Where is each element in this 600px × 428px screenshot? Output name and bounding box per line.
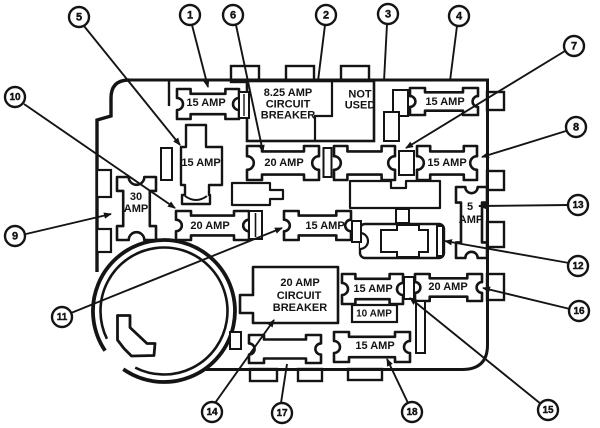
svg-text:15 AMP: 15 AMP — [181, 157, 220, 169]
svg-text:15 AMP: 15 AMP — [186, 97, 225, 109]
svg-text:20 AMP: 20 AMP — [190, 220, 229, 232]
svg-text:2: 2 — [323, 10, 329, 22]
svg-text:20 AMP: 20 AMP — [280, 277, 319, 289]
svg-text:10 AMP: 10 AMP — [356, 309, 392, 320]
svg-text:7: 7 — [571, 41, 577, 53]
svg-text:6: 6 — [230, 10, 236, 22]
svg-text:9: 9 — [12, 231, 18, 243]
svg-text:15 AMP: 15 AMP — [355, 340, 394, 352]
svg-text:15 AMP: 15 AMP — [425, 96, 464, 108]
svg-text:8.25 AMP: 8.25 AMP — [264, 87, 313, 99]
svg-text:1: 1 — [187, 10, 193, 22]
svg-text:20 AMP: 20 AMP — [428, 281, 467, 293]
svg-text:15 AMP: 15 AMP — [353, 283, 392, 295]
svg-text:AMP: AMP — [459, 214, 483, 226]
svg-text:BREAKER: BREAKER — [261, 110, 315, 122]
svg-text:AMP: AMP — [124, 203, 148, 215]
svg-text:8: 8 — [573, 122, 579, 134]
svg-text:4: 4 — [456, 11, 463, 23]
svg-text:15: 15 — [542, 405, 554, 416]
svg-text:30: 30 — [130, 191, 142, 203]
svg-text:CIRCUIT: CIRCUIT — [277, 290, 322, 302]
svg-text:5: 5 — [76, 12, 82, 24]
svg-text:15 AMP: 15 AMP — [305, 220, 344, 232]
svg-text:5: 5 — [467, 201, 473, 213]
svg-text:12: 12 — [572, 261, 584, 272]
svg-text:13: 13 — [572, 200, 584, 211]
svg-text:11: 11 — [57, 312, 68, 323]
svg-text:17: 17 — [276, 408, 288, 419]
svg-text:10: 10 — [9, 92, 21, 103]
svg-text:BREAKER: BREAKER — [273, 302, 327, 314]
svg-text:20 AMP: 20 AMP — [264, 157, 303, 169]
svg-text:16: 16 — [573, 306, 585, 317]
svg-text:3: 3 — [385, 9, 391, 21]
svg-text:18: 18 — [406, 407, 418, 418]
svg-text:15 AMP: 15 AMP — [427, 157, 466, 169]
svg-text:14: 14 — [206, 407, 218, 418]
svg-text:USED: USED — [345, 100, 376, 112]
